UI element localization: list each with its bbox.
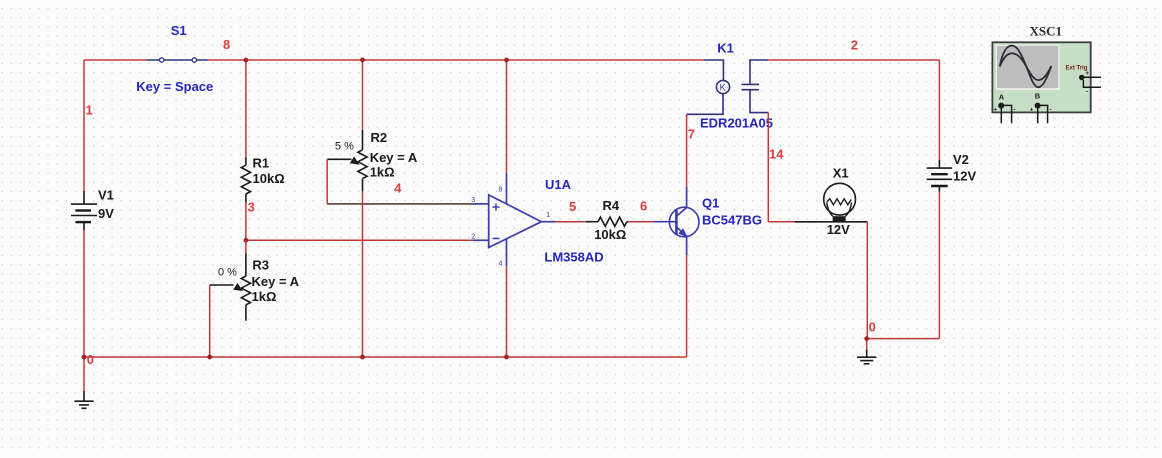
battery V1 <box>71 191 97 231</box>
wire V2 bottom <box>938 192 940 339</box>
svg-text:7: 7 <box>688 127 695 142</box>
svg-text:2: 2 <box>851 38 858 53</box>
wire ground2 stem <box>866 339 868 350</box>
wire net 1 left rail top <box>83 60 85 191</box>
svg-text:5: 5 <box>569 199 576 214</box>
svg-text:8: 8 <box>223 37 230 52</box>
R3 wiper arrow <box>233 283 243 291</box>
wire R3 wiper to bottom <box>209 285 211 357</box>
junction bottom opamp <box>504 355 509 360</box>
wire net 6 <box>628 221 653 223</box>
ground left <box>75 391 94 408</box>
svg-text:R3: R3 <box>252 258 269 273</box>
wire R2 wiper down <box>326 159 328 204</box>
svg-text:14: 14 <box>769 147 784 162</box>
svg-text:XSC1: XSC1 <box>1030 24 1063 39</box>
wire V2 top <box>938 60 940 160</box>
svg-text:5 %: 5 % <box>335 141 354 153</box>
svg-text:10kΩ: 10kΩ <box>594 227 626 242</box>
wire ground2 to V2 <box>867 338 940 340</box>
svg-text:12V: 12V <box>953 169 976 184</box>
wire lamp right down <box>866 222 868 339</box>
wire R2 top <box>362 60 364 130</box>
R2 wiper arrow <box>350 157 360 165</box>
wire emitter to bottom <box>686 255 688 357</box>
wire to lamp left <box>768 221 795 223</box>
switch S1 <box>146 58 208 62</box>
svg-text:1: 1 <box>86 103 93 118</box>
wire top rail mid (net 8) <box>208 59 704 61</box>
svg-text:Key = A: Key = A <box>370 150 418 165</box>
wire top rail left (net 8) <box>84 59 146 61</box>
junction bottom R2 <box>360 355 365 360</box>
svg-text:1kΩ: 1kΩ <box>370 165 395 180</box>
svg-text:+: + <box>1030 108 1034 114</box>
wire R1 top <box>245 60 247 157</box>
svg-text:-: - <box>1014 108 1016 114</box>
svg-text:12V: 12V <box>827 222 850 237</box>
svg-text:R1: R1 <box>253 156 270 171</box>
svg-text:4: 4 <box>394 181 402 196</box>
svg-text:+: + <box>1086 71 1090 77</box>
wire opamp V- down <box>506 266 508 357</box>
wire opamp V+ <box>506 60 508 173</box>
svg-text:1kΩ: 1kΩ <box>252 289 277 304</box>
svg-text:V2: V2 <box>953 152 969 167</box>
svg-text:0: 0 <box>87 352 94 367</box>
svg-text:1: 1 <box>546 212 550 219</box>
potentiometer R3 <box>245 240 247 253</box>
wire R2 bottom <box>362 192 364 357</box>
junction ground2 <box>864 336 869 341</box>
junction top R2 <box>360 58 365 63</box>
junction R1/R3 <box>244 238 249 243</box>
svg-text:+: + <box>994 108 998 114</box>
relay K1 coil <box>687 60 730 114</box>
svg-text:K1: K1 <box>717 41 734 56</box>
svg-text:A: A <box>999 93 1005 102</box>
svg-text:3: 3 <box>471 197 475 204</box>
svg-text:R4: R4 <box>603 198 620 213</box>
svg-text:S1: S1 <box>171 23 187 38</box>
svg-text:X1: X1 <box>833 166 849 181</box>
svg-text:K: K <box>720 83 726 93</box>
wire R1 bottom <box>245 202 247 240</box>
svg-text:8: 8 <box>499 187 503 194</box>
svg-text:4: 4 <box>499 261 503 268</box>
battery V2 <box>927 160 952 192</box>
lamp base <box>833 216 846 222</box>
relay K1 contact <box>742 60 769 113</box>
wire contact to lamp <box>767 113 769 222</box>
junction top opamp <box>504 58 509 63</box>
svg-text:0 %: 0 % <box>218 267 237 279</box>
svg-text:0: 0 <box>869 320 876 335</box>
resistor R1 <box>241 157 250 202</box>
lamp X1 <box>795 183 867 222</box>
svg-text:6: 6 <box>640 199 647 214</box>
svg-text:Key = A: Key = A <box>252 274 300 289</box>
svg-text:LM358AD: LM358AD <box>544 250 603 265</box>
wire top rail right (net 2) <box>768 59 939 61</box>
svg-text:-: - <box>1086 90 1088 96</box>
svg-text:BC547BG: BC547BG <box>702 213 762 228</box>
svg-text:-: - <box>1050 108 1052 114</box>
transistor Q1 <box>653 187 699 256</box>
potentiometer R2 <box>327 130 367 192</box>
svg-text:Key = Space: Key = Space <box>136 79 213 94</box>
svg-text:9V: 9V <box>98 206 114 221</box>
svg-text:10kΩ: 10kΩ <box>253 171 285 186</box>
Q1 emitter arrow <box>678 228 687 237</box>
svg-text:EDR201A05: EDR201A05 <box>700 116 773 131</box>
junction bottom left <box>82 355 87 360</box>
wire bottom rail (net 0) <box>84 356 687 358</box>
svg-text:B: B <box>1035 92 1041 101</box>
junction bottom R3 <box>207 355 212 360</box>
junction top 8 <box>244 58 249 63</box>
op-amp U1A <box>473 173 555 266</box>
ground right <box>857 349 876 363</box>
svg-text:2: 2 <box>471 234 475 241</box>
wire plus-input net (dark) <box>327 203 473 205</box>
svg-text:3: 3 <box>248 200 255 215</box>
svg-text:Q1: Q1 <box>702 196 719 211</box>
wire net 1 left rail bottom <box>83 231 85 358</box>
wire minus-input net <box>246 239 473 241</box>
svg-text:R2: R2 <box>371 130 388 145</box>
wire output net 5 <box>555 221 586 223</box>
svg-text:Ext Trig: Ext Trig <box>1066 66 1088 72</box>
svg-text:U1A: U1A <box>545 177 572 192</box>
resistor R4 <box>586 217 628 226</box>
wire ground stem left <box>83 357 85 391</box>
svg-text:V1: V1 <box>98 188 114 203</box>
wire collector up <box>686 114 688 186</box>
